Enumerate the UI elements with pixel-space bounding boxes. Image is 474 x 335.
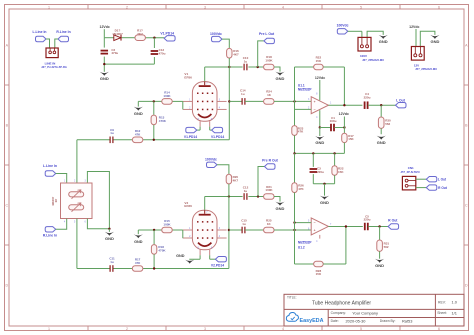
svg-text:15K: 15K xyxy=(316,59,322,63)
svg-text:15K: 15K xyxy=(348,137,354,141)
svg-text:100K: 100K xyxy=(265,188,273,192)
svg-text:15K: 15K xyxy=(316,272,322,276)
svg-text:1: 1 xyxy=(48,5,50,9)
svg-text:R Out: R Out xyxy=(388,218,398,222)
svg-text:3: 3 xyxy=(204,327,206,331)
svg-text:1N4007: 1N4007 xyxy=(112,32,123,36)
svg-text:Rat53: Rat53 xyxy=(402,318,412,323)
svg-text:LINE IN: LINE IN xyxy=(45,61,56,65)
svg-text:GND: GND xyxy=(105,236,114,241)
svg-text:L.Line In: L.Line In xyxy=(43,164,57,168)
svg-text:4K7: 4K7 xyxy=(233,179,239,183)
svg-text:1u: 1u xyxy=(244,59,248,63)
svg-text:562: 562 xyxy=(384,245,389,249)
svg-text:100Vdc: 100Vdc xyxy=(210,32,222,36)
svg-text:100K: 100K xyxy=(265,59,273,63)
svg-text:1/1: 1/1 xyxy=(452,310,457,315)
svg-text:5: 5 xyxy=(360,5,362,9)
svg-text:GND: GND xyxy=(377,140,386,145)
svg-text:12Vdc: 12Vdc xyxy=(409,25,419,29)
svg-text:R Out: R Out xyxy=(438,186,448,190)
svg-text:562: 562 xyxy=(385,122,390,126)
svg-text:1u: 1u xyxy=(242,222,246,226)
svg-text:J3?_PJ-327A-5P-RA: J3?_PJ-327A-5P-RA xyxy=(41,65,67,69)
svg-text:Drawn By:: Drawn By: xyxy=(380,319,396,323)
svg-text:1: 1 xyxy=(48,327,50,331)
svg-text:GND: GND xyxy=(430,39,439,44)
svg-text:GND: GND xyxy=(100,76,109,81)
svg-text:GND: GND xyxy=(315,140,324,145)
svg-text:V1.PD14: V1.PD14 xyxy=(211,135,224,139)
svg-text:1u: 1u xyxy=(110,131,114,135)
svg-text:GND: GND xyxy=(276,76,285,81)
svg-text:J5?_2P6x6x5-MX: J5?_2P6x6x5-MX xyxy=(415,67,437,71)
svg-text:3: 3 xyxy=(204,5,206,9)
svg-text:2: 2 xyxy=(126,5,128,9)
svg-text:470u: 470u xyxy=(111,51,118,55)
svg-text:Your Company: Your Company xyxy=(352,310,378,315)
svg-text:4K7: 4K7 xyxy=(233,53,239,57)
svg-text:L Out: L Out xyxy=(438,178,447,182)
svg-text:GND: GND xyxy=(176,254,185,258)
svg-text:Pre R Out: Pre R Out xyxy=(262,158,279,162)
svg-text:L Out: L Out xyxy=(396,99,406,103)
svg-text:Tube Headphone Amplifier: Tube Headphone Amplifier xyxy=(312,301,371,307)
svg-text:12Vdc: 12Vdc xyxy=(339,112,349,116)
svg-text:TITLE:: TITLE: xyxy=(287,296,297,300)
svg-text:V1.PD14: V1.PD14 xyxy=(184,135,197,139)
svg-text:12Vdc: 12Vdc xyxy=(315,76,325,80)
svg-text:U1.2: U1.2 xyxy=(298,246,305,250)
svg-text:5: 5 xyxy=(360,327,362,331)
svg-text:REV:: REV: xyxy=(438,300,446,304)
svg-text:100u: 100u xyxy=(330,119,337,123)
svg-text:4: 4 xyxy=(282,5,284,9)
svg-text:NE5532P: NE5532P xyxy=(298,88,313,92)
svg-text:R.Line In: R.Line In xyxy=(43,234,57,238)
svg-text:J6?_2P6x6x5-MX: J6?_2P6x6x5-MX xyxy=(362,58,384,62)
svg-text:12V: 12V xyxy=(414,63,419,67)
svg-text:C: C xyxy=(465,203,468,207)
svg-text:CN1: CN1 xyxy=(408,166,414,170)
svg-text:100Vdc: 100Vdc xyxy=(337,23,349,27)
svg-text:47K: 47K xyxy=(135,261,141,265)
svg-text:R.Line In: R.Line In xyxy=(56,30,70,34)
svg-text:J5?_2P-N-TH5I: J5?_2P-N-TH5I xyxy=(401,170,420,174)
svg-text:L.Line In: L.Line In xyxy=(33,30,47,34)
svg-text:100Vdc: 100Vdc xyxy=(205,158,217,162)
svg-text:220u: 220u xyxy=(364,96,371,100)
svg-text:GND: GND xyxy=(375,263,384,268)
svg-text:GND: GND xyxy=(320,200,329,205)
svg-text:220u: 220u xyxy=(364,218,371,222)
svg-text:GND: GND xyxy=(276,206,285,211)
svg-text:47K: 47K xyxy=(298,130,304,134)
svg-text:1.0: 1.0 xyxy=(452,299,458,304)
svg-text:RK097: RK097 xyxy=(51,196,55,205)
svg-text:V1.PD14: V1.PD14 xyxy=(160,31,174,35)
svg-text:1u: 1u xyxy=(244,189,248,193)
svg-text:D: D xyxy=(5,283,8,287)
svg-text:Company:: Company: xyxy=(331,311,347,315)
svg-text:470K: 470K xyxy=(158,249,166,253)
svg-text:100V: 100V xyxy=(360,54,367,58)
svg-text:47K: 47K xyxy=(135,132,141,136)
svg-text:1u: 1u xyxy=(110,260,114,264)
svg-text:EasyEDA: EasyEDA xyxy=(300,318,324,324)
svg-text:C: C xyxy=(5,203,8,207)
svg-text:Sheet:: Sheet: xyxy=(437,311,447,315)
svg-text:6: 6 xyxy=(438,5,440,9)
svg-text:EF86: EF86 xyxy=(184,76,192,80)
svg-text:1u: 1u xyxy=(241,92,245,96)
svg-text:2020-05-30: 2020-05-30 xyxy=(346,318,367,323)
svg-text:15K: 15K xyxy=(338,170,344,174)
svg-text:GND: GND xyxy=(134,240,143,244)
svg-text:470K: 470K xyxy=(159,119,167,123)
svg-text:2: 2 xyxy=(126,327,128,331)
svg-text:47K: 47K xyxy=(298,187,304,191)
svg-text:NE5532P: NE5532P xyxy=(298,241,313,245)
svg-text:4: 4 xyxy=(282,327,284,331)
svg-text:EF86: EF86 xyxy=(184,204,192,208)
svg-text:470u: 470u xyxy=(159,52,166,56)
svg-text:100K: 100K xyxy=(163,222,171,226)
svg-text:220u: 220u xyxy=(317,170,324,174)
svg-text:100K: 100K xyxy=(163,94,171,98)
svg-text:D: D xyxy=(465,283,468,287)
svg-text:6: 6 xyxy=(438,327,440,331)
svg-text:12Vdc: 12Vdc xyxy=(100,25,110,29)
svg-text:2K2: 2K2 xyxy=(137,32,143,36)
svg-text:Pre L Out: Pre L Out xyxy=(259,32,275,36)
svg-text:GND: GND xyxy=(379,39,388,44)
svg-text:V2.PD14: V2.PD14 xyxy=(211,264,224,268)
svg-text:GND: GND xyxy=(134,111,143,116)
svg-text:Date:: Date: xyxy=(331,319,339,323)
